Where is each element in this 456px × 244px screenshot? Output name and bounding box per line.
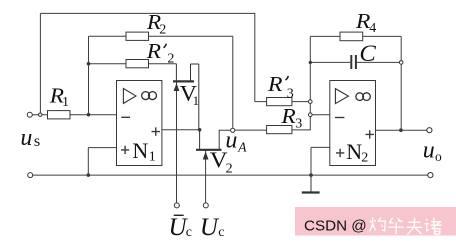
op-amp N2 inverting input minus marker xyxy=(335,117,344,119)
wire R'2 row xyxy=(89,63,177,65)
hanzi zhuo xyxy=(370,218,376,232)
label R'2 xyxy=(146,39,175,66)
label V1 xyxy=(180,81,199,108)
transistor V1 xyxy=(173,64,199,130)
wire right bus vertical xyxy=(309,36,311,130)
wire R4 row xyxy=(310,35,401,37)
junction N1 output / V1 source / V2 drain xyxy=(198,128,202,132)
junction top feedback tap at R1 input xyxy=(39,113,42,116)
label R'3 xyxy=(267,72,294,101)
terminal uo output xyxy=(427,128,432,133)
hanzi zhu xyxy=(425,219,429,231)
wire R4 to output vertical xyxy=(400,36,402,130)
op-amp N2 infinity gain symbol xyxy=(356,93,370,101)
hanzi fu xyxy=(407,218,423,235)
op-amp N1 noninverting input plus marker xyxy=(121,146,129,154)
terminal us input xyxy=(27,112,32,117)
wire Uc control line xyxy=(205,151,207,203)
wire N2 output xyxy=(376,129,427,131)
junction R'3 on N2 inverting bus xyxy=(309,100,313,104)
svg-text:1: 1 xyxy=(62,95,69,110)
svg-text:c: c xyxy=(186,225,192,240)
svg-text:s: s xyxy=(34,134,40,151)
capacitor C plates xyxy=(351,55,356,69)
svg-text:3: 3 xyxy=(295,117,302,132)
svg-text:2: 2 xyxy=(226,161,233,176)
svg-text:U: U xyxy=(200,214,220,241)
hanzi hua xyxy=(388,218,404,235)
op-amp N2 noninverting input plus marker xyxy=(336,149,344,157)
label V2 xyxy=(210,148,233,176)
op-amp N1 name label xyxy=(132,138,155,164)
junction N2 output to R4/C branch xyxy=(399,128,403,132)
op-amp U1 triangle symbol xyxy=(123,89,136,104)
svg-text:3: 3 xyxy=(287,86,294,101)
junction N1 noninverting branch on ground rail xyxy=(87,173,91,177)
op-amp N2 name label xyxy=(346,139,368,165)
terminal us return (bottom left) xyxy=(28,173,33,178)
resistor R2 xyxy=(126,32,149,40)
op-amp N2 box xyxy=(330,81,376,166)
svg-text:R: R xyxy=(267,72,283,95)
label R3 xyxy=(280,104,302,131)
junction ground tap on bottom rail xyxy=(309,173,313,177)
wire N2 noninverting input xyxy=(311,147,330,175)
op-amp N1 output plus marker xyxy=(152,127,161,135)
svg-text:CSDN @: CSDN @ xyxy=(304,218,367,235)
label Uc-bar control voltage xyxy=(169,214,193,241)
svg-text:N: N xyxy=(346,139,362,164)
wire bottom rail xyxy=(33,174,428,176)
label uo xyxy=(423,138,442,164)
junction N1 inverting input node xyxy=(87,113,91,117)
watermark xyxy=(295,207,456,236)
transistor V1 gate arrow xyxy=(174,83,180,91)
transistor V2 gate arrow xyxy=(203,152,209,160)
junction N2 inverting input on bus xyxy=(309,113,313,117)
svg-text:R: R xyxy=(280,104,296,128)
terminal Uc-bar control xyxy=(174,203,179,208)
transistor V2 xyxy=(196,130,222,150)
wire N1 noninverting input xyxy=(88,148,116,176)
svg-text:R: R xyxy=(146,39,162,63)
wire uA row to R3 xyxy=(235,129,310,131)
svg-text:u: u xyxy=(225,128,237,154)
svg-text:1: 1 xyxy=(193,93,200,108)
wire R'3 row xyxy=(255,13,310,102)
svg-text:1: 1 xyxy=(149,149,156,164)
op-amp N1 inverting input minus marker xyxy=(121,116,130,118)
svg-text:C: C xyxy=(359,42,377,67)
wire top feedback xyxy=(40,13,254,114)
label R1 xyxy=(49,84,69,110)
node uA circle xyxy=(231,128,235,132)
label R2 xyxy=(146,10,166,37)
resistor R'3 xyxy=(267,98,292,106)
junction C right plate on output branch xyxy=(399,61,403,65)
junction C left plate on N2 input bus xyxy=(309,61,312,64)
svg-text:N: N xyxy=(132,138,148,163)
resistor R3 xyxy=(267,126,292,134)
svg-text:c: c xyxy=(218,225,224,240)
ground xyxy=(302,175,320,192)
op-amp N1 infinity gain symbol xyxy=(142,92,157,100)
resistor R4 xyxy=(340,32,363,41)
wire V2 source to node uA xyxy=(219,130,230,150)
op-amp N1 box xyxy=(117,81,162,166)
svg-text:o: o xyxy=(435,149,442,164)
svg-text:u: u xyxy=(423,138,435,164)
wire C row xyxy=(310,61,401,63)
wire R2 to node uA vertical xyxy=(232,36,234,128)
wire R2 row xyxy=(89,35,233,37)
svg-text:2: 2 xyxy=(167,52,174,67)
svg-text:2: 2 xyxy=(361,151,368,166)
svg-text:4: 4 xyxy=(369,21,376,36)
svg-text:u: u xyxy=(20,125,32,151)
wire node B vertical xyxy=(88,36,90,115)
wire N1 output xyxy=(162,129,200,131)
wire N2 inverting input xyxy=(310,114,330,116)
terminal Uc control xyxy=(203,203,208,208)
resistor R1 xyxy=(48,111,71,119)
op-amp U2 triangle symbol xyxy=(335,89,348,104)
terminal uo return (bottom right) xyxy=(428,173,433,178)
label uA (node A voltage) xyxy=(225,128,247,155)
label Uc control voltage xyxy=(200,214,225,241)
label R4 xyxy=(355,9,376,36)
wire Uc-bar control line xyxy=(176,82,178,203)
resistor R'2 xyxy=(126,60,149,68)
junction R'2 tap on R2 branch xyxy=(87,62,91,66)
label us xyxy=(20,125,40,151)
wire input row xyxy=(32,114,116,116)
svg-text:2: 2 xyxy=(159,23,166,38)
svg-text:A: A xyxy=(237,139,247,154)
op-amp N2 output plus marker xyxy=(366,130,374,138)
